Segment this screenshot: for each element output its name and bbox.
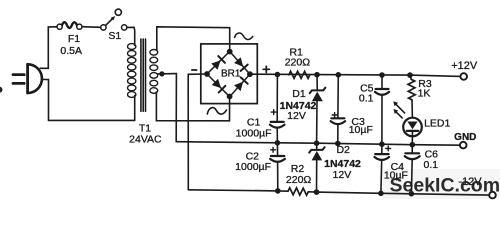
plus sign C3	[332, 113, 337, 118]
resistor R2	[288, 188, 308, 195]
svg-text:F1: F1	[68, 33, 80, 45]
svg-text:1K: 1K	[418, 88, 431, 100]
capacitor C2	[270, 143, 285, 191]
wire positive top rail	[250, 74, 461, 76]
node gnd rail LED C6	[410, 142, 416, 148]
zener diode D1	[310, 75, 326, 144]
wire plug bottom lead to transformer primary bottom	[42, 80, 135, 121]
LED1	[403, 118, 422, 145]
plus sign C2	[271, 147, 276, 152]
node bottom rail D2	[314, 189, 320, 195]
svg-text:0.1: 0.1	[359, 93, 374, 105]
node top rail C3	[336, 72, 342, 78]
svg-text:12V: 12V	[287, 110, 306, 122]
terminal GND	[460, 142, 467, 149]
plus sign C1	[271, 110, 276, 115]
scan artifact left edge	[0, 87, 3, 93]
svg-text:D1: D1	[292, 88, 306, 100]
plus sign C4	[386, 146, 391, 151]
svg-text:10µF: 10µF	[384, 170, 408, 182]
capacitor C1	[270, 75, 285, 143]
node bridge top vertex	[227, 49, 233, 55]
svg-text:LED1: LED1	[424, 117, 450, 129]
plus polarity label	[263, 66, 269, 72]
svg-text:1000µF: 1000µF	[235, 161, 271, 173]
node top rail D1	[314, 72, 320, 78]
wire bridge minus to bottom rail	[188, 74, 207, 190]
watermark haze	[383, 169, 500, 199]
wire switch to transformer primary	[127, 27, 135, 45]
node bridge left vertex	[204, 71, 210, 77]
node bridge right vertex	[247, 71, 253, 77]
wire bottom rail right	[308, 192, 489, 195]
svg-text:BR1: BR1	[221, 68, 241, 79]
bridge rectifier BR1 outline box	[201, 44, 257, 104]
transformer T1 core	[141, 39, 146, 111]
svg-text:0.5A: 0.5A	[60, 45, 82, 57]
capacitor C4	[375, 144, 390, 193]
diode BR1 top-right	[234, 57, 243, 66]
AC tilde top	[235, 33, 253, 39]
node bridge bottom vertex	[227, 94, 233, 100]
node gnd rail D1 D2	[314, 140, 320, 146]
svg-text:12V: 12V	[333, 169, 352, 181]
svg-text:24VAC: 24VAC	[129, 133, 162, 145]
node bottom rail C4	[378, 191, 384, 197]
svg-text:S1: S1	[108, 30, 121, 42]
node gnd rail C1 C2	[275, 140, 281, 146]
node gnd rail C3	[335, 141, 341, 147]
ground middle rail	[176, 142, 460, 146]
resistor R3	[408, 75, 415, 118]
wire center tap down to ground rail	[175, 74, 177, 142]
node bottom rail C6	[409, 191, 415, 197]
capacitor C3	[331, 75, 345, 144]
node bottom rail C2	[275, 188, 281, 194]
AC tilde bottom	[207, 108, 226, 115]
switch S1	[101, 9, 127, 30]
terminal +12V	[460, 73, 467, 80]
node top rail C1	[275, 72, 281, 78]
wire secondary top to bridge AC top	[157, 27, 230, 52]
bridge BR1 diamond	[207, 51, 250, 96]
zener diode D2	[309, 143, 324, 192]
diode BR1 bottom-right	[234, 82, 243, 92]
AC plug P1	[13, 64, 42, 93]
wire fuse to switch	[82, 26, 101, 29]
svg-text:-12V: -12V	[458, 176, 482, 188]
diode BR1 bottom-left	[212, 79, 221, 88]
negative bottom rail	[188, 190, 288, 191]
node center tap	[158, 71, 177, 76]
minus polarity label	[192, 69, 197, 71]
transformer T1 primary winding	[128, 44, 136, 98]
svg-text:+12V: +12V	[451, 60, 478, 72]
diode BR1 top-left	[211, 60, 220, 69]
svg-text:10µF: 10µF	[349, 124, 373, 136]
capacitor C5	[375, 75, 389, 144]
node gnd rail C4 C5	[379, 141, 385, 147]
node top rail R3	[407, 72, 413, 78]
capacitor C6	[405, 145, 420, 194]
svg-text:1000µF: 1000µF	[236, 128, 272, 140]
wire plug top lead to fuse	[40, 27, 57, 69]
transformer T1 secondary winding	[150, 50, 158, 94]
LED1 arrow 1	[393, 101, 404, 113]
node top rail C5	[379, 72, 385, 78]
svg-text:GND: GND	[454, 132, 476, 143]
svg-text:220Ω: 220Ω	[285, 56, 311, 68]
wire secondary bottom to bridge AC bottom	[156, 92, 229, 121]
resistor R1	[289, 71, 310, 78]
svg-text:0.1: 0.1	[423, 159, 438, 171]
LED1 arrow 2	[393, 109, 402, 118]
terminal -12V	[489, 192, 496, 199]
svg-text:R2: R2	[291, 163, 305, 175]
svg-text:220Ω: 220Ω	[286, 174, 312, 186]
fuse F1	[57, 22, 82, 29]
